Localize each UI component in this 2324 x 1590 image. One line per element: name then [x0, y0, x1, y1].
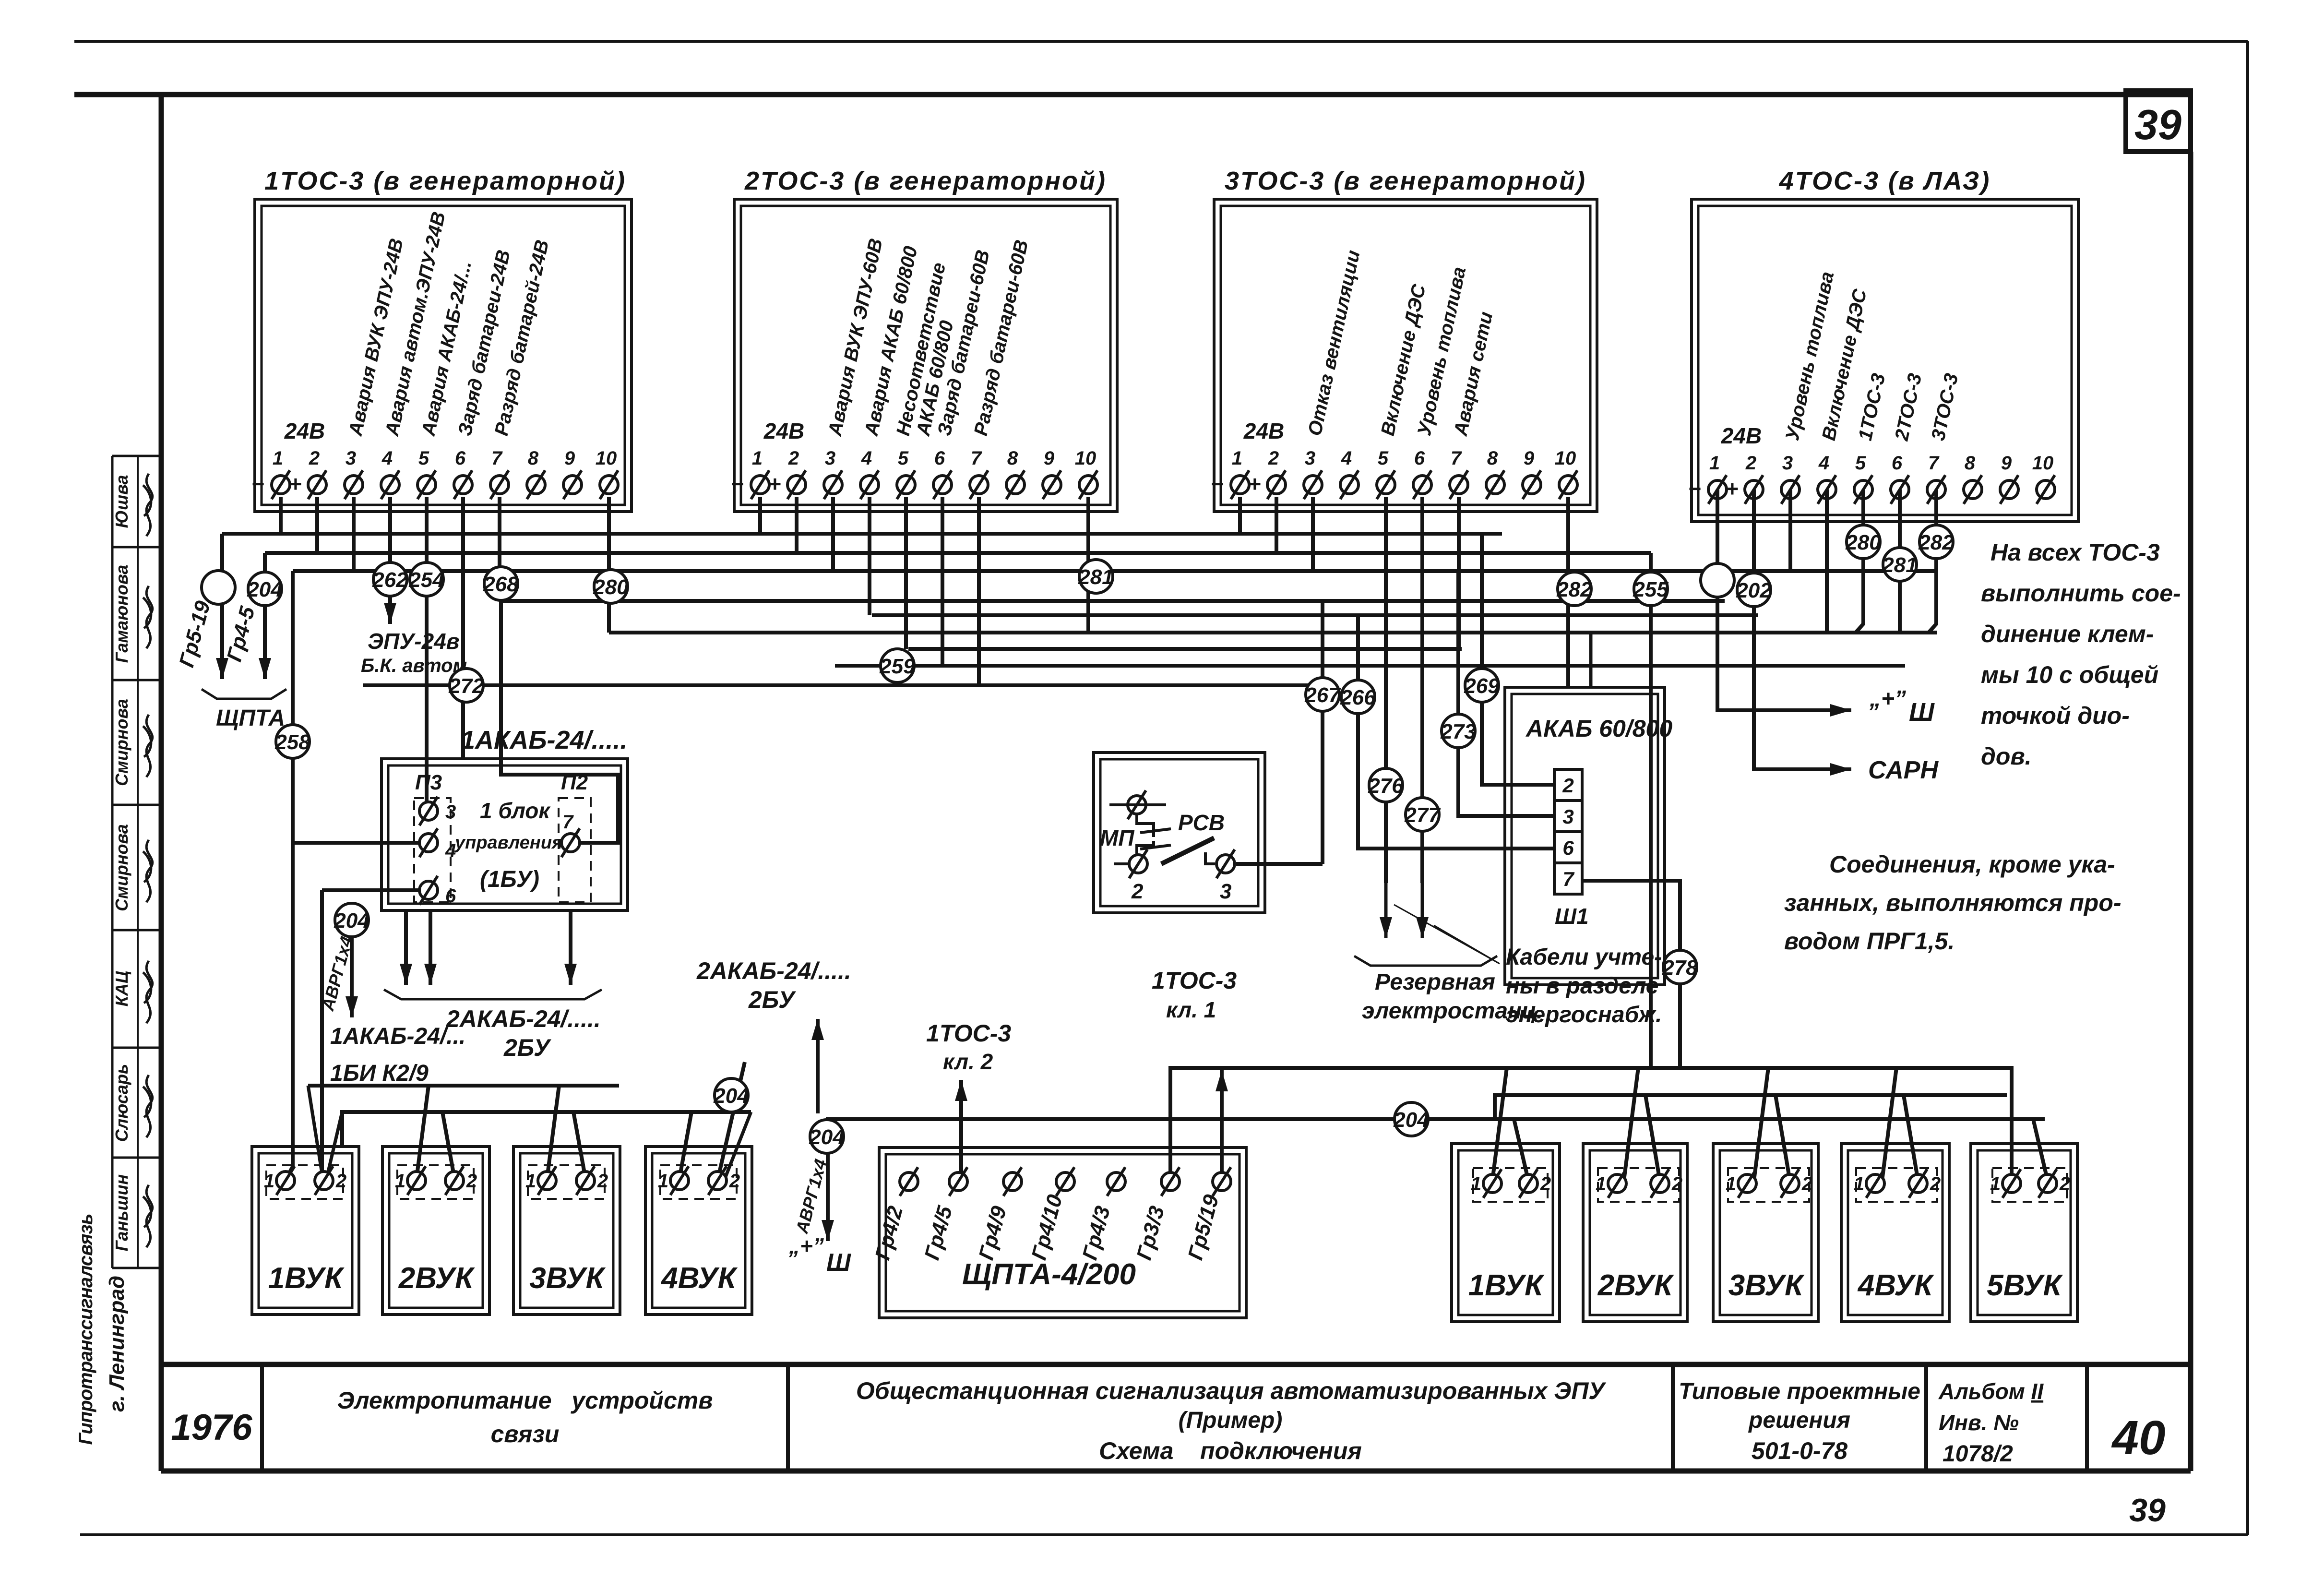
- cable 272: [450, 669, 483, 702]
- svg-text:4ТОС-3 (в ЛАЗ): 4ТОС-3 (в ЛАЗ): [1779, 167, 1991, 195]
- svg-text:точкой дио-: точкой дио-: [1981, 702, 2130, 729]
- wire: [795, 497, 799, 553]
- svg-text:Смирнова: Смирнова: [112, 824, 131, 911]
- wire Гр4/5 riser to 1ТОС-3 кл.2: [959, 1080, 963, 1182]
- svg-text:1БИ К2/9: 1БИ К2/9: [330, 1061, 429, 1086]
- svg-text:дов.: дов.: [1981, 743, 2032, 770]
- svg-text:501-0-78: 501-0-78: [1752, 1437, 1847, 1464]
- svg-text:1: 1: [1232, 448, 1242, 469]
- svg-text:204: 204: [334, 909, 369, 932]
- svg-text:202: 202: [1736, 579, 1772, 602]
- svg-text:(1БУ): (1БУ): [480, 867, 539, 892]
- wire: [573, 1112, 585, 1178]
- svg-text:276: 276: [1368, 774, 1404, 798]
- svg-text:281: 281: [1882, 553, 1917, 577]
- wire from 3: [1236, 862, 1323, 866]
- wire bus: [500, 599, 1725, 603]
- svg-text:7: 7: [971, 448, 982, 469]
- svg-text:8: 8: [1487, 448, 1498, 469]
- wire: [758, 497, 762, 534]
- svg-text:255: 255: [1633, 578, 1669, 601]
- wire to reserve power: [1384, 497, 1388, 883]
- svg-text:ны в разделе: ны в разделе: [1506, 973, 1658, 999]
- pin 4: [419, 834, 438, 852]
- contact МП: [1137, 814, 1154, 837]
- svg-text:1АКАБ-24/...: 1АКАБ-24/...: [330, 1024, 465, 1049]
- svg-text:9: 9: [2001, 453, 2012, 474]
- svg-text:282: 282: [1918, 531, 1954, 554]
- svg-text:4: 4: [445, 840, 456, 861]
- cable 280: [1847, 525, 1880, 559]
- wire bus: [1170, 1068, 2012, 1184]
- wire 2АКАБ arrow up: [816, 1019, 820, 1113]
- svg-text:+: +: [1248, 471, 1261, 496]
- svg-text:7: 7: [562, 812, 574, 833]
- svg-text:3ТОС-3 (в генераторной): 3ТОС-3 (в генераторной): [1225, 167, 1586, 195]
- svg-text:4: 4: [381, 448, 393, 469]
- cable 278: [1663, 950, 1697, 984]
- svg-text:10: 10: [1555, 448, 1576, 469]
- wire: [1904, 1095, 1918, 1181]
- svg-text:Соединения, кроме ука-: Соединения, кроме ука-: [1829, 851, 2115, 878]
- terminal Гр5/19: [1213, 1172, 1231, 1191]
- wire Ш1 pin7 down: [1582, 881, 1680, 1068]
- svg-text:1 блок: 1 блок: [480, 798, 551, 823]
- svg-text:9: 9: [1044, 448, 1055, 469]
- cable 266: [1341, 680, 1375, 714]
- svg-text:204: 204: [1393, 1108, 1429, 1132]
- cable 282: [1919, 525, 1953, 559]
- wire: [1086, 497, 1090, 633]
- svg-text:9: 9: [1524, 448, 1535, 469]
- cable 254: [410, 562, 443, 596]
- switch box МП/РСВ: [1094, 753, 1265, 913]
- wire (right corner bus): [1589, 633, 1593, 687]
- svg-text:3ВУК: 3ВУК: [529, 1262, 606, 1295]
- wire bus: [908, 647, 1462, 651]
- svg-text:2АКАБ-24/.....: 2АКАБ-24/.....: [696, 957, 851, 984]
- svg-text:259: 259: [879, 655, 915, 678]
- terminal 2: [1129, 855, 1147, 873]
- svg-text:204: 204: [809, 1125, 844, 1149]
- svg-text:7: 7: [1451, 448, 1462, 469]
- block 1AKAB-24 (1БУ): [381, 759, 628, 910]
- wire 204 feeder down: [350, 910, 354, 1017]
- svg-text:3: 3: [346, 448, 356, 469]
- svg-text:КАЦ: КАЦ: [112, 971, 131, 1006]
- svg-text:Схема подключения: Схема подключения: [1099, 1437, 1362, 1464]
- subblock П2: [559, 798, 591, 902]
- svg-text:4: 4: [1818, 453, 1829, 474]
- wire: [1514, 1119, 1528, 1181]
- svg-text:6: 6: [445, 885, 456, 907]
- wire bus: [308, 1084, 619, 1088]
- wire bus: [835, 664, 1905, 668]
- svg-text:связи: связи: [491, 1421, 560, 1447]
- svg-text:269: 269: [1464, 674, 1500, 698]
- terminal 3: [1216, 855, 1235, 873]
- pin 6: [419, 881, 438, 899]
- svg-text:выполнить сое-: выполнить сое-: [1981, 580, 2181, 607]
- wire: [1898, 490, 1902, 633]
- svg-text:2: 2: [309, 448, 320, 469]
- wire drop to 1ВУК t1: [291, 571, 295, 1166]
- wire: [315, 497, 319, 553]
- svg-text:мы 10 с общей: мы 10 с общей: [1981, 661, 2158, 688]
- svg-text:3: 3: [825, 448, 835, 469]
- svg-text:1: 1: [1990, 1173, 2001, 1195]
- wire: [1856, 490, 1863, 633]
- svg-text:МП: МП: [1100, 825, 1134, 850]
- svg-text:2: 2: [2059, 1173, 2070, 1195]
- wire: [868, 497, 871, 615]
- svg-text:Альбом II: Альбом II: [1938, 1379, 2044, 1404]
- wire bus: [1495, 1095, 2007, 1119]
- wire: [1776, 1095, 1790, 1181]
- cable 204: [715, 1078, 748, 1112]
- svg-text:САРН: САРН: [1868, 756, 1939, 784]
- svg-text:2: 2: [1671, 1173, 1682, 1195]
- svg-text:2: 2: [1801, 1173, 1812, 1195]
- svg-text:Б.К. автом: Б.К. автом: [361, 655, 467, 676]
- svg-text:1: 1: [525, 1171, 536, 1192]
- cable 273: [1442, 714, 1475, 748]
- wire: [352, 497, 356, 571]
- wire bus: [872, 613, 1758, 617]
- svg-text:Резервная: Резервная: [1375, 969, 1495, 995]
- wire 2AKAB arrows: [404, 910, 408, 985]
- svg-text:−: −: [251, 471, 264, 496]
- svg-text:−: −: [1688, 476, 1701, 501]
- svg-text:+: +: [768, 471, 781, 496]
- svg-text:272: 272: [448, 674, 484, 698]
- svg-text:1: 1: [1709, 453, 1720, 474]
- svg-text:24В: 24В: [1721, 423, 1762, 448]
- svg-text:Типовые проектные: Типовые проектные: [1679, 1379, 1920, 1404]
- svg-text:2: 2: [1131, 880, 1144, 903]
- svg-text:2: 2: [1268, 448, 1279, 469]
- svg-text:280: 280: [1845, 531, 1881, 554]
- svg-text:Общестанционная сигнализация а: Общестанционная сигнализация автоматизир…: [856, 1377, 1607, 1404]
- svg-text:4: 4: [861, 448, 872, 469]
- svg-text:„+”: „+”: [788, 1233, 824, 1258]
- cable 276: [1369, 768, 1403, 802]
- bracket ЩПТА: [202, 689, 286, 699]
- svg-text:5: 5: [898, 448, 909, 469]
- svg-text:2: 2: [729, 1171, 740, 1192]
- switch blade РСВ: [1161, 838, 1214, 864]
- svg-text:1: 1: [752, 448, 763, 469]
- svg-text:1ВУК: 1ВУК: [1468, 1269, 1545, 1302]
- svg-text:24В: 24В: [284, 418, 325, 443]
- wire: [607, 497, 611, 633]
- terminal Гр4/3: [1107, 1172, 1125, 1191]
- terminal strip 4TOC-3: [1692, 199, 2078, 522]
- svg-text:1976: 1976: [171, 1407, 252, 1448]
- block 4ВУК (left): [645, 1147, 752, 1315]
- svg-text:3: 3: [445, 801, 456, 823]
- cable 281: [1883, 548, 1917, 581]
- wire: [1238, 497, 1242, 534]
- block 5ВУК (right): [1971, 1144, 2077, 1322]
- svg-text:динение клем-: динение клем-: [1981, 621, 2154, 647]
- wire to AKAB 60/800: [1566, 497, 1570, 687]
- wire bus: [609, 631, 1937, 634]
- svg-text:258: 258: [274, 730, 310, 754]
- svg-text:278: 278: [1662, 956, 1698, 980]
- svg-text:7: 7: [1562, 868, 1574, 890]
- svg-text:2БУ: 2БУ: [748, 986, 797, 1013]
- svg-text:2ВУК: 2ВУК: [1597, 1269, 1674, 1302]
- wire: [1645, 1095, 1660, 1181]
- connector Ш1: [1554, 769, 1582, 894]
- wire: [1114, 862, 1129, 865]
- svg-text:5ВУК: 5ВУК: [1987, 1269, 2063, 1302]
- svg-text:6: 6: [455, 448, 466, 469]
- svg-text:Ганьшин: Ганьшин: [112, 1174, 131, 1251]
- bracket Резервная электростанция: [1354, 956, 1497, 966]
- terminal Гр4/10: [1056, 1172, 1074, 1191]
- stamp column: [111, 456, 114, 1268]
- cable 258: [276, 725, 310, 758]
- callout lines: [1394, 905, 1500, 964]
- wire: [831, 497, 835, 571]
- block 3ВУК (left): [513, 1147, 620, 1315]
- cable 269: [1465, 669, 1499, 702]
- svg-text:РСВ: РСВ: [1178, 810, 1225, 835]
- svg-text:5: 5: [418, 448, 429, 469]
- svg-text:6: 6: [934, 448, 945, 469]
- svg-text:204: 204: [247, 578, 282, 601]
- svg-text:1: 1: [273, 448, 283, 469]
- svg-text:281: 281: [1078, 565, 1113, 589]
- wire: [547, 1086, 559, 1178]
- wire: [1788, 490, 1792, 571]
- wire: [1109, 803, 1166, 806]
- svg-text:ЩПТА-4/200: ЩПТА-4/200: [962, 1258, 1136, 1291]
- svg-text:г. Ленинград: г. Ленинград: [105, 1276, 129, 1412]
- svg-text:Инв. №: Инв. №: [1939, 1410, 2019, 1435]
- wire to reserve power: [1420, 497, 1424, 883]
- svg-text:6: 6: [1562, 837, 1574, 859]
- wire: [1275, 497, 1278, 553]
- svg-text:204: 204: [713, 1084, 749, 1108]
- wire Gr5-19 feeder: [220, 534, 224, 679]
- svg-text:2: 2: [788, 448, 799, 469]
- terminal Гр4/5: [949, 1172, 967, 1191]
- wire: [977, 497, 981, 685]
- svg-text:2: 2: [597, 1171, 608, 1192]
- terminal Гр4/9: [1003, 1172, 1022, 1191]
- svg-text:занных, выполняются про-: занных, выполняются про-: [1784, 889, 2121, 916]
- pin 3: [419, 802, 438, 820]
- svg-text:Ш: Ш: [1909, 698, 1935, 727]
- svg-text:3ВУК: 3ВУК: [1728, 1269, 1805, 1302]
- svg-text:1: 1: [1726, 1173, 1736, 1195]
- svg-text:280: 280: [593, 575, 629, 599]
- svg-text:решения: решения: [1748, 1408, 1850, 1433]
- cable 204: [1394, 1102, 1428, 1136]
- svg-text:1: 1: [658, 1171, 668, 1192]
- svg-text:(Пример): (Пример): [1179, 1408, 1283, 1433]
- terminal strip 1TOC-3: [255, 199, 632, 512]
- svg-text:Гамаюнова: Гамаюнова: [112, 565, 131, 663]
- svg-text:Электропитание устройств: Электропитание устройств: [337, 1387, 713, 1414]
- svg-text:„+”: „+”: [1869, 686, 1906, 712]
- svg-text:4: 4: [1341, 448, 1352, 469]
- svg-text:+: +: [289, 471, 302, 496]
- svg-text:−: −: [731, 471, 744, 496]
- svg-text:2: 2: [335, 1171, 346, 1192]
- wire: [2033, 1119, 2048, 1181]
- svg-text:1078/2: 1078/2: [1943, 1441, 2013, 1467]
- svg-text:−: −: [1211, 471, 1224, 496]
- wire to 1AKAB: [461, 497, 465, 759]
- block ЩПТА-4/200: [879, 1148, 1246, 1318]
- wire САРН feeder: [1754, 490, 1851, 769]
- wire ЭПУ-24в feeder: [388, 497, 392, 624]
- svg-text:267: 267: [1304, 683, 1341, 707]
- svg-text:8: 8: [528, 448, 539, 469]
- wire bus 204: [828, 1119, 2045, 1241]
- svg-text:управления: управления: [454, 833, 562, 853]
- svg-text:7: 7: [491, 448, 503, 469]
- svg-text:4ВУК: 4ВУК: [660, 1262, 738, 1295]
- wire Гр5/19 riser to 1ТОС-3 кл.1: [1220, 1070, 1224, 1182]
- cable 267: [1306, 678, 1339, 711]
- svg-text:Ш1: Ш1: [1555, 904, 1589, 929]
- svg-text:39: 39: [2129, 1492, 2166, 1529]
- svg-text:2ТОС-3 (в генераторной): 2ТОС-3 (в генераторной): [744, 167, 1107, 195]
- svg-text:24В: 24В: [1243, 418, 1284, 443]
- cable 268: [484, 567, 518, 600]
- wire: [279, 497, 283, 534]
- cable 280: [594, 570, 628, 603]
- wire: [1754, 1068, 1768, 1181]
- wire drop to 1ВУК t2: [320, 890, 324, 1181]
- cable 281: [1079, 560, 1113, 593]
- svg-text:ЩПТА: ЩПТА: [216, 705, 285, 731]
- svg-text:5: 5: [1855, 453, 1866, 474]
- wire bus: [222, 532, 1502, 536]
- wire bus: [293, 569, 1937, 573]
- wire to Ш1 pin6: [1358, 615, 1554, 849]
- block 1ВУК (left): [252, 1147, 359, 1315]
- svg-text:энергоснабж.: энергоснабж.: [1506, 1002, 1662, 1028]
- svg-text:Ш: Ш: [826, 1249, 851, 1277]
- wire: [417, 1086, 429, 1178]
- svg-text:2: 2: [466, 1171, 477, 1192]
- svg-text:2: 2: [1540, 1173, 1551, 1195]
- svg-text:4ВУК: 4ВУК: [1857, 1269, 1934, 1302]
- svg-text:1: 1: [395, 1171, 405, 1192]
- wire: [308, 1086, 322, 1173]
- svg-text:2АКАБ-24/.....: 2АКАБ-24/.....: [446, 1005, 601, 1032]
- node Gr5-19: [202, 571, 235, 604]
- wire to Ш1 pin3: [1458, 571, 1554, 816]
- svg-text:2: 2: [1562, 774, 1573, 797]
- cable 259: [881, 649, 914, 682]
- svg-text:2: 2: [1745, 453, 1756, 474]
- wire: [498, 497, 501, 601]
- svg-text:7: 7: [1928, 453, 1940, 474]
- block 3ВУК (right): [1713, 1144, 1818, 1322]
- svg-text:Кабели учте-: Кабели учте-: [1506, 944, 1662, 970]
- cable 262: [373, 562, 407, 596]
- svg-text:2: 2: [1930, 1173, 1941, 1195]
- svg-text:П3: П3: [415, 771, 442, 794]
- svg-text:+: +: [1726, 476, 1739, 501]
- cable 204: [335, 903, 369, 937]
- svg-text:39: 39: [2134, 101, 2181, 148]
- wire: [1825, 490, 1829, 633]
- block 4ВУК (right): [1841, 1144, 1949, 1322]
- svg-text:водом ПРГ1,5.: водом ПРГ1,5.: [1784, 928, 1955, 955]
- pin 7: [561, 834, 580, 852]
- svg-text:6: 6: [1892, 453, 1903, 474]
- wire РСВ contact to bus: [1321, 601, 1324, 864]
- sheet number box 39 (top right): [2126, 91, 2191, 152]
- wire 255 drop: [1649, 553, 1653, 1068]
- svg-text:1: 1: [1596, 1173, 1606, 1195]
- svg-text:1: 1: [1854, 1173, 1864, 1195]
- cable 202: [1737, 573, 1771, 607]
- svg-text:3: 3: [1220, 880, 1231, 903]
- wire bus: [265, 551, 1651, 555]
- wire to Ш1 pin2: [1482, 534, 1554, 785]
- cable 204: [810, 1120, 844, 1153]
- wire: [1624, 1068, 1638, 1181]
- terminal strip 2TOC-3: [734, 199, 1117, 512]
- subblock П3: [414, 798, 451, 902]
- svg-text:1: 1: [1471, 1173, 1481, 1195]
- wire: [1929, 490, 1936, 633]
- wire: [1492, 1068, 1507, 1181]
- svg-text:40: 40: [2111, 1411, 2165, 1465]
- svg-text:Гипротранссигналсвязь: Гипротранссигналсвязь: [75, 1214, 96, 1445]
- svg-text:8: 8: [1007, 448, 1018, 469]
- svg-text:ЭПУ-24в: ЭПУ-24в: [368, 629, 460, 654]
- svg-text:2БУ: 2БУ: [503, 1034, 552, 1061]
- svg-text:10: 10: [1075, 448, 1096, 469]
- wire: [328, 1112, 342, 1173]
- svg-text:282: 282: [1556, 578, 1592, 601]
- svg-text:На всех ТОС-3: На всех ТОС-3: [1990, 539, 2160, 566]
- svg-text:277: 277: [1404, 803, 1441, 827]
- block 2ВУК (left): [382, 1147, 489, 1315]
- wire: [1311, 497, 1315, 571]
- svg-text:6: 6: [1414, 448, 1425, 469]
- svg-text:1ВУК: 1ВУК: [268, 1262, 345, 1295]
- wire Gr4-5 feeder: [263, 553, 267, 679]
- cable 255: [1634, 572, 1668, 606]
- bracket 2АКАБ-24: [384, 990, 602, 999]
- svg-text:3: 3: [1305, 448, 1315, 469]
- block 1ВУК (right): [1452, 1144, 1560, 1322]
- svg-text:273: 273: [1440, 720, 1476, 743]
- svg-text:1: 1: [264, 1171, 274, 1192]
- wire pin6 left: [322, 888, 419, 892]
- title block: [161, 1362, 2191, 1367]
- wire +Ш feeder: [1717, 490, 1851, 710]
- svg-text:кл. 2: кл. 2: [943, 1049, 993, 1074]
- svg-text:Юшва: Юшва: [112, 475, 131, 528]
- node: [1701, 563, 1734, 597]
- wire: [941, 497, 944, 666]
- svg-text:Смирнова: Смирнова: [112, 699, 131, 786]
- wire bus: [363, 683, 1323, 687]
- svg-text:10: 10: [2032, 453, 2054, 474]
